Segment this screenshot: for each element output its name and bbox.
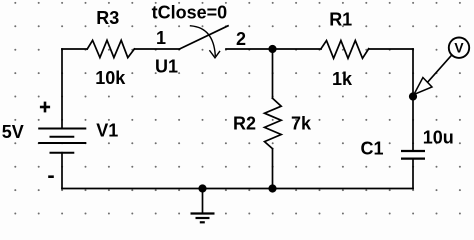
svg-text:R3: R3 [96, 8, 119, 28]
wire top-left from V1 to R3 [62, 48, 87, 50]
switch U1 blade and right contact [180, 26, 273, 49]
resistor R3 [87, 40, 134, 57]
svg-text:tClose=0: tClose=0 [152, 2, 228, 22]
value 10u [423, 128, 454, 148]
label R3 [96, 8, 119, 28]
wire node 2 to R1 [273, 48, 322, 50]
voltage probe V [414, 38, 469, 95]
junction node 2 [268, 45, 276, 53]
label tClose=0 [152, 2, 228, 22]
svg-text:U1: U1 [155, 57, 178, 77]
junction R2 bottom node [268, 184, 276, 192]
svg-text:R1: R1 [329, 10, 352, 30]
ground [191, 214, 215, 223]
wire C1 bottom plate to bottom rail [412, 159, 414, 189]
wire R3 to switch U1 left contact (node 1) [134, 48, 179, 50]
voltage source V1 battery plates [38, 129, 86, 153]
node 2 [236, 29, 246, 49]
label U1 [155, 57, 178, 77]
wire left vertical V1 plus to top rail [61, 49, 63, 129]
V1 plus terminal mark [40, 102, 50, 113]
svg-text:R2: R2 [233, 113, 256, 133]
wire R2 bottom to bottom rail [272, 149, 274, 189]
wire node 2 down to R2 [272, 49, 274, 98]
wire bottom rail [62, 188, 413, 190]
svg-text:2: 2 [236, 29, 246, 49]
value 7k [291, 113, 312, 133]
svg-text:V: V [454, 41, 464, 56]
svg-text:7k: 7k [291, 113, 312, 133]
wire R1 to right corner [369, 48, 413, 50]
label C1 [361, 139, 384, 159]
value 1k [332, 69, 353, 89]
label R2 [233, 113, 256, 133]
svg-text:1: 1 [156, 28, 166, 48]
switch U1 actuation arc arrow [191, 26, 220, 58]
svg-text:1k: 1k [332, 69, 353, 89]
wire ground stub [202, 189, 204, 214]
label V1 [96, 121, 118, 141]
resistor R2 [265, 98, 282, 149]
node 1 [156, 28, 166, 48]
svg-text:V1: V1 [96, 121, 118, 141]
svg-text:10u: 10u [423, 128, 454, 148]
resistor R1 [321, 41, 369, 59]
capacitor C1 plates [401, 151, 425, 159]
V1 minus terminal mark [48, 175, 54, 178]
svg-text:C1: C1 [361, 139, 384, 159]
label R1 [329, 10, 352, 30]
value 10k [95, 68, 126, 88]
junction ground node [198, 184, 206, 192]
wire V1 minus to bottom rail [61, 153, 63, 189]
svg-text:10k: 10k [95, 68, 126, 88]
wire right vertical to C1 top plate [412, 49, 414, 151]
value 5V [2, 122, 24, 142]
junction probe node [409, 92, 417, 100]
svg-text:5V: 5V [2, 122, 24, 142]
